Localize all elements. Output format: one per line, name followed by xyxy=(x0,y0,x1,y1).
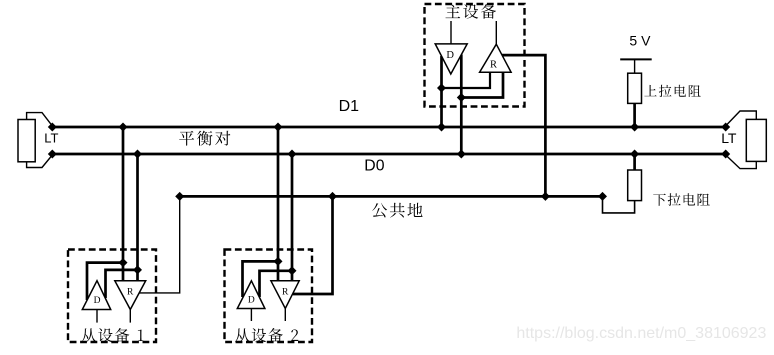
wire bus line D1 xyxy=(52,126,725,129)
node slave2 junction A xyxy=(274,257,283,266)
node right D1 endpoint xyxy=(721,123,730,132)
wire pull-down resistor to common ground xyxy=(603,196,635,213)
svg-text:R: R xyxy=(282,287,289,297)
op-amp D slave2 driver xyxy=(237,281,265,309)
wire slave1 tap D0 to receiver xyxy=(136,154,139,281)
resistor pull-down xyxy=(628,170,642,201)
label 下拉电阻 (pull-down resistor) xyxy=(653,193,710,206)
node common ground right endpoint xyxy=(598,192,607,201)
resistor LT right termination xyxy=(746,119,766,161)
wire slave1 driver output A xyxy=(87,263,123,300)
svg-text:LT: LT xyxy=(44,131,58,146)
node master tap on D0 xyxy=(457,150,466,159)
svg-text:R: R xyxy=(127,287,134,297)
wire bus line D0 xyxy=(52,153,725,156)
label 上拉电阻 (pull-up resistor) xyxy=(644,85,700,97)
wire slave2 tap D1 to receiver xyxy=(277,127,280,281)
wire right termination top connection xyxy=(726,111,757,126)
wire left termination bottom connection xyxy=(27,155,53,168)
wire master receiver output stub xyxy=(495,21,497,44)
node master driver/receiver junction A xyxy=(437,84,446,93)
wire master receiver input B xyxy=(461,72,503,97)
label 平衡对 (balanced pair) xyxy=(179,131,230,146)
wire master driver output A to D1 xyxy=(440,56,443,127)
wire slave1 driver input stub xyxy=(96,310,98,323)
node slave2 tap on D1 xyxy=(274,123,283,132)
node slave1 junction A xyxy=(119,258,128,267)
wire slave2 driver output A xyxy=(243,261,279,297)
svg-text:D: D xyxy=(248,296,255,306)
node pull-down tap on D0 xyxy=(630,150,639,159)
label 从设备 1 (slave device 1) xyxy=(82,328,144,342)
wire slave1 receiver output stub xyxy=(129,310,131,323)
resistor pull-up xyxy=(628,73,642,103)
svg-text:D: D xyxy=(94,296,101,306)
wire 5V to pull-up resistor xyxy=(634,59,636,75)
wire common ground bus xyxy=(180,195,603,198)
slave2 dashed box xyxy=(225,250,313,343)
wire slave2 driver input stub xyxy=(250,309,252,322)
node pull-up tap on D1 xyxy=(630,123,639,132)
wire left termination top connection xyxy=(27,113,53,126)
resistor LT left termination xyxy=(18,120,35,162)
node slave1 ground tap xyxy=(175,192,184,201)
op-amp R master receiver xyxy=(480,44,512,72)
wire right termination bottom connection xyxy=(726,155,757,169)
wire slave1 driver output B xyxy=(106,270,138,298)
master device dashed box xyxy=(425,4,525,107)
node slave2 tap on D0 xyxy=(288,150,297,159)
svg-text:LT: LT xyxy=(721,130,737,146)
svg-text:D: D xyxy=(446,50,454,61)
node slave1 tap on D1 xyxy=(119,123,128,132)
node master driver/receiver junction B xyxy=(457,93,466,102)
node right D0 endpoint xyxy=(721,150,730,159)
svg-text:D1: D1 xyxy=(339,98,360,115)
op-amp D master driver xyxy=(435,44,467,74)
op-amp R slave1 receiver xyxy=(115,281,146,310)
wire slave1 receiver side to common ground xyxy=(139,196,180,293)
label 主设备 (master device) xyxy=(446,4,497,19)
node slave1 tap on D0 xyxy=(133,150,142,159)
svg-text:R: R xyxy=(490,60,497,71)
svg-text:5 V: 5 V xyxy=(629,32,651,48)
wire slave2 tap D0 to receiver xyxy=(291,154,294,281)
node slave2 ground tap xyxy=(328,192,337,201)
node master tap on D1 xyxy=(437,123,446,132)
op-amp R slave2 receiver xyxy=(271,281,299,309)
wire master receiver side to common ground xyxy=(502,55,545,196)
wire slave2 receiver output stub xyxy=(284,309,286,322)
node master ground tap xyxy=(541,192,550,201)
node left D1 endpoint xyxy=(48,123,57,132)
op-amp D slave1 driver xyxy=(82,281,110,310)
wire D0 to pull-down resistor xyxy=(633,154,636,171)
5V power rail bar xyxy=(620,58,652,60)
node slave2 junction B xyxy=(288,266,297,275)
node slave1 junction B xyxy=(133,265,142,274)
wire slave2 driver output B xyxy=(260,271,293,297)
wire master driver output B to D0 xyxy=(460,55,463,155)
wire pull-up resistor to D1 xyxy=(633,102,636,127)
slave1 dashed box xyxy=(68,250,156,343)
wire slave1 tap D1 to receiver xyxy=(122,127,125,281)
svg-text:https://blog.csdn.net/m0_38106: https://blog.csdn.net/m0_38106923 xyxy=(516,325,766,342)
wire master receiver input A xyxy=(442,72,491,88)
node left D0 endpoint xyxy=(48,150,57,159)
wire slave2 receiver side to common ground xyxy=(293,196,333,294)
label 从设备 2 (slave device 2) xyxy=(235,328,298,342)
svg-text:D0: D0 xyxy=(364,158,384,175)
label 公共地 (common ground) xyxy=(372,203,422,218)
wire master driver input stub xyxy=(450,21,452,44)
